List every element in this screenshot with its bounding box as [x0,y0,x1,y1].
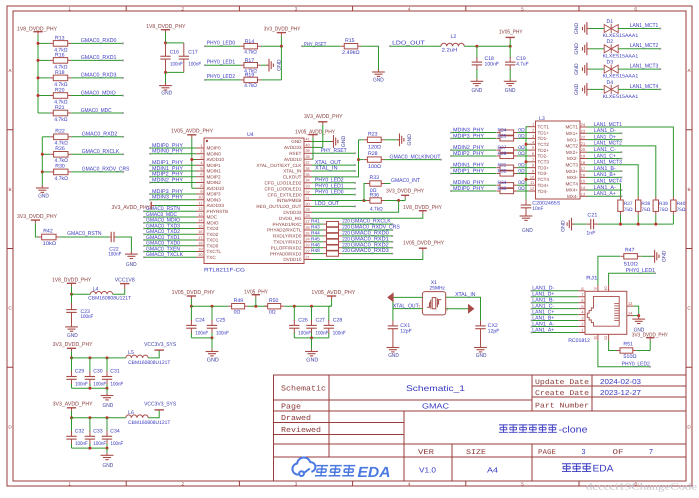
svg-text:7: 7 [532,157,534,162]
svg-text:35: 35 [305,172,309,177]
junction [190,305,193,308]
svg-text:C24: C24 [195,318,204,324]
svg-text:L6: L6 [128,410,134,416]
pin 18 (TXD0) of U4 [196,245,204,247]
wire [248,305,268,307]
wire [191,337,212,339]
svg-text:LAN1_D+: LAN1_D+ [594,134,616,140]
resistor R28 [359,159,364,161]
wire (pin2 stub) [446,308,468,310]
wire [113,289,125,295]
wire [589,88,604,90]
wire [148,350,159,358]
wire [72,357,126,359]
wire [451,190,496,192]
svg-text:22: 22 [581,135,585,140]
svg-text:3V3_AVDD_PHY: 3V3_AVDD_PHY [304,114,343,120]
svg-text:GMAC0_MDIO: GMAC0_MDIO [81,90,117,96]
svg-text:KLXES15AAA1: KLXES15AAA1 [603,33,639,39]
wire [517,155,529,157]
wire [385,159,441,161]
resistor R16 [50,59,53,61]
wire (pin 21 DVDD10) [312,251,423,259]
wire [587,195,622,197]
junction [88,387,91,390]
wire [526,161,529,163]
junction [70,293,73,296]
svg-text:R46: R46 [311,242,320,248]
svg-text:MDIP1: MDIP1 [207,163,221,168]
pin 27 (PHYAD1/RXC) of U4 [304,223,312,225]
resistor R40 [672,197,674,200]
resistor R26 [50,153,53,155]
svg-text:2: 2 [581,322,583,327]
svg-text:19: 19 [198,246,202,251]
ground [101,393,114,400]
svg-text:100nF: 100nF [333,330,346,336]
capacitor C22 [109,236,111,238]
svg-text:4.7kΩ: 4.7kΩ [55,176,69,182]
svg-text:10kΩ: 10kΩ [43,241,57,247]
svg-text:OF: OF [613,449,624,457]
wire [618,88,660,90]
ground (C26-C28) [305,349,318,356]
svg-text:3: 3 [582,447,586,456]
pin 29 (DVDD33) of U4 [304,211,312,213]
svg-text:MDIP0_PHY: MDIP0_PHY [453,186,484,192]
wire [587,139,622,141]
resistor R49 [228,305,231,307]
node PHY0_LED2 (pin 34) [312,182,355,184]
junction [88,416,91,419]
svg-text:19: 19 [581,154,585,159]
svg-text:5: 5 [581,304,583,309]
pin 18 (MCT3) of L3 [580,164,587,166]
pin 14 (MDIO) of U4 [196,222,204,224]
junction [211,336,214,339]
svg-text:R27: R27 [498,145,507,151]
capacitor 10nF (TCT) [525,199,527,205]
svg-text:C27: C27 [316,318,325,324]
svg-text:Schematic_1: Schematic_1 [406,384,466,393]
inductor L5 [126,355,148,358]
svg-text:3: 3 [581,316,583,321]
svg-text:GMAC0_TXCLK: GMAC0_TXCLK [146,252,183,258]
ground (sideways, D2) [583,42,590,55]
wire [589,48,604,50]
svg-text:C28: C28 [333,318,342,324]
svg-text:12: 12 [530,186,534,191]
pin 22 (PHYAD0/RXD3) of U4 [304,253,312,255]
resistor R48 [323,253,326,255]
wire [205,64,241,66]
svg-text:-clone: -clone [559,424,588,435]
TVS diode D3 [604,65,618,74]
svg-text:LAN1_A+: LAN1_A+ [532,327,554,333]
svg-text:RC01812: RC01812 [568,338,590,344]
svg-text:3V3_DVDD_PHY: 3V3_DVDD_PHY [386,188,424,194]
svg-text:15: 15 [198,223,202,228]
wire [42,153,50,155]
resistor R39 [655,197,657,200]
wire [150,164,196,166]
wire [72,417,126,419]
svg-text:DVDD33: DVDD33 [283,210,302,215]
svg-text:27: 27 [305,219,309,224]
pin 4 (MDIP1) of U4 [196,164,204,166]
port arrow (XTAL_IN) [468,304,474,314]
pin 2 of RJ1 [578,326,585,328]
svg-text:PHY_RSET: PHY_RSET [321,148,348,154]
wire [532,326,579,328]
wire [144,222,196,224]
resistor R22 [50,136,53,138]
wire [41,172,43,186]
resistor R13 [50,42,53,44]
resistor R50 [264,305,267,307]
wire [587,189,622,191]
svg-text:25MHz: 25MHz [430,285,446,291]
svg-text:R43: R43 [311,225,320,231]
svg-text:R49: R49 [234,298,244,304]
ground (C24/C25) [206,349,219,356]
svg-text:PHYAD2/RXCTL: PHYAD2/RXCTL [267,228,302,233]
svg-text:510Ω: 510Ω [624,262,638,268]
pin 6 of RJ1 [578,302,585,304]
wire [38,77,50,79]
pin 6 (MDIP2) of U4 [196,176,204,178]
svg-text:100nF: 100nF [111,381,124,387]
svg-text:GND: GND [574,63,580,75]
svg-text:GMAC0_MDC: GMAC0_MDC [81,108,112,114]
svg-text:XTAL_IN: XTAL_IN [315,166,338,172]
svg-text:R15: R15 [345,38,355,44]
pin 34 (CFG_LDO1/LED2) of U4 [304,182,312,184]
svg-text:TCT3: TCT3 [538,160,550,165]
svg-text:1nF: 1nF [586,231,595,237]
svg-text:PHYAD1/RXC: PHYAD1/RXC [272,222,302,227]
wire [532,296,579,298]
svg-text:MX4-: MX4- [567,194,578,199]
svg-text:25: 25 [305,231,309,236]
svg-text:AVDD33: AVDD33 [284,145,302,150]
resistor R27 [497,149,500,151]
svg-text:R16: R16 [55,52,65,58]
wire [598,341,650,367]
wire [72,293,91,295]
wire [451,137,496,139]
pin 15 (MCT4) of L3 [580,183,587,185]
svg-text:4.7kΩ: 4.7kΩ [244,83,257,89]
svg-text:1: 1 [581,328,583,333]
svg-text:4.7uF: 4.7uF [516,61,528,67]
svg-text:GMAC0_MCLKINOUT: GMAC0_MCLKINOUT [390,154,442,160]
svg-text:R48: R48 [311,248,320,254]
svg-text:PLLOFF/RXD2: PLLOFF/RXD2 [271,245,302,250]
pin 17 (MX3+) of L3 [580,170,587,172]
svg-text:GND: GND [522,228,533,234]
wire [38,112,50,114]
svg-text:0Ω: 0Ω [518,151,525,157]
svg-text:XTAL_IN: XTAL_IN [455,292,475,298]
capacitor C29 [71,358,73,372]
node PHY_RSET (pin 39) [312,152,355,154]
pin 11 of RJ1 [597,334,599,340]
svg-text:TXD2: TXD2 [207,232,219,237]
junction [475,45,478,48]
pin 39 (RSET) of U4 [304,152,312,154]
resistor R23 [359,139,364,141]
resistor R25 [497,137,500,139]
svg-text:MDIP2_PHY: MDIP2_PHY [453,151,484,157]
svg-text:28: 28 [305,213,309,218]
pin 5 (TD2+) of L3 [529,149,536,151]
svg-text:GND: GND [574,43,580,55]
svg-text:GND: GND [407,134,413,146]
pin 4 (TCT2) of L3 [529,143,536,145]
ground (13/14) [632,316,645,324]
wire [211,338,213,349]
svg-text:MDIN0_PHY: MDIN0_PHY [152,149,183,155]
junction [37,59,40,62]
pin 21 (MCT2) of L3 [580,145,587,147]
svg-text:Schematic: Schematic [281,384,326,393]
svg-text:INTB/PMEB: INTB/PMEB [277,198,302,203]
svg-text:GMAC0_RSTN: GMAC0_RSTN [67,231,101,237]
svg-text:RSET: RSET [289,151,301,156]
svg-text:4.7kΩ: 4.7kΩ [244,49,257,55]
wire [451,167,496,169]
svg-text:GND: GND [574,83,580,95]
svg-text:7: 7 [649,447,653,456]
svg-text:PHY0_LED0: PHY0_LED0 [207,40,236,46]
svg-text:R14: R14 [245,39,255,45]
junction [525,143,528,146]
svg-text:MDIN1: MDIN1 [207,169,222,174]
svg-text:100nF: 100nF [108,251,121,257]
pin 8 (AVDD10) of U4 [196,187,204,189]
svg-text:18: 18 [581,160,585,165]
svg-text:3V3_DVDD_PHY: 3V3_DVDD_PHY [264,27,301,33]
svg-text:LAN1_MCT3: LAN1_MCT3 [630,64,659,70]
svg-text:VCC3V3_SYS: VCC3V3_SYS [144,402,176,408]
svg-text:D4: D4 [607,80,614,86]
svg-text:100nF: 100nF [298,330,311,336]
pin 16 (TXD2) of U4 [196,233,204,235]
svg-text:MX3-: MX3- [567,175,578,180]
wire [312,229,323,231]
svg-text:TXD0: TXD0 [207,243,219,248]
junction [70,416,73,419]
svg-text:VCC1V8: VCC1V8 [115,277,135,283]
svg-text:R21: R21 [55,105,65,111]
svg-text:Drawed: Drawed [281,414,311,423]
wire [35,230,38,237]
TVS diode D4 [604,85,618,94]
wire [205,45,241,47]
ground (pin 41) [312,141,331,143]
svg-text:CLKOUT: CLKOUT [283,175,302,180]
svg-text:C16: C16 [170,50,179,56]
crystal X1 25MHz [422,292,445,315]
junction [88,447,91,450]
svg-text:MDC: MDC [207,215,218,220]
pin 6 (TD2-) of L3 [529,155,536,157]
pin 17 (TXD1) of U4 [196,239,204,241]
TVS diode D2 [604,44,618,53]
capacitor C34 [106,418,108,432]
transformer L3 [536,121,581,199]
svg-text:1: 1 [532,122,534,127]
svg-text:R37: R37 [624,201,633,207]
wire [618,68,660,70]
junction [310,336,313,339]
svg-text:29: 29 [305,207,309,212]
svg-text:13: 13 [628,301,632,306]
svg-text:R39: R39 [659,201,668,207]
wire [71,153,123,155]
junction [37,94,40,97]
wire [637,215,639,225]
node PHY0_LED1 (pin 33) [312,188,355,190]
wire [302,45,341,47]
pin 1 (TCT1) of L3 [529,126,536,128]
svg-text:33: 33 [305,184,309,189]
capacitor CX2 [480,321,482,326]
svg-text:dcccci19ChangeCode: dcccci19ChangeCode [586,483,697,493]
wire [144,245,196,247]
svg-text:D2: D2 [607,39,614,45]
svg-text:D3: D3 [607,60,614,66]
wire [294,337,329,339]
svg-text:100nF: 100nF [75,441,88,447]
svg-text:DVDD_RG: DVDD_RG [279,216,302,221]
svg-text:LAN1_MCT2: LAN1_MCT2 [594,141,622,147]
pin 15 (TXD3) of U4 [196,228,204,230]
pin 5 of RJ1 [578,308,585,310]
svg-text:LAN1_MCT1: LAN1_MCT1 [630,23,659,29]
svg-text:2.2uH: 2.2uH [442,47,458,53]
ground (C23) [65,325,78,332]
wire [150,176,196,178]
wire [517,137,529,139]
svg-text:16: 16 [198,229,202,234]
ground [520,214,533,221]
svg-text:1: 1 [68,6,71,11]
junction [280,45,283,48]
wire [390,45,441,47]
ground [125,252,138,259]
svg-text:100nF: 100nF [81,314,94,320]
svg-text:R32: R32 [498,168,507,174]
svg-text:LAN1_C+: LAN1_C+ [594,153,616,159]
svg-text:GND: GND [103,403,114,409]
svg-text:B: B [687,187,690,192]
svg-text:GND: GND [505,88,516,94]
svg-text:0Ω: 0Ω [234,310,241,316]
svg-text:XTAL_OUT/EXT_CLK: XTAL_OUT/EXT_CLK [256,163,302,168]
pin 3 of RJ1 [578,320,585,322]
svg-text:DVDD10: DVDD10 [283,257,302,262]
svg-text:L3: L3 [539,116,545,122]
junction [106,387,109,390]
svg-text:2: 2 [532,128,534,133]
svg-text:R31: R31 [498,163,507,169]
svg-text:32: 32 [305,190,309,195]
svg-text:16: 16 [581,172,585,177]
wire [71,95,123,97]
svg-text:38: 38 [305,154,309,159]
svg-text:36: 36 [305,166,309,171]
wire [655,215,657,225]
svg-text:R26: R26 [55,146,65,152]
svg-text:PHY0_LED0: PHY0_LED0 [315,189,344,195]
svg-text:12pF: 12pF [488,328,500,334]
pin 12 (PHYRSTB) of U4 [196,210,204,212]
svg-text:PHYRSTB: PHYRSTB [207,209,229,214]
pin 9 (MDIP3) of U4 [196,193,204,195]
svg-text:9: 9 [200,189,202,194]
ground (CX1) [387,345,400,352]
junction [106,416,109,419]
svg-text:15: 15 [581,179,585,184]
wire [311,338,313,349]
svg-text:100nF: 100nF [93,381,106,387]
resistor R17 [241,64,244,66]
svg-text:4.7kΩ: 4.7kΩ [370,206,383,212]
svg-text:AVDD10: AVDD10 [207,186,225,191]
pin 13 (MDC) of U4 [196,216,204,218]
svg-text:KLXES15AAA1: KLXES15AAA1 [603,94,639,100]
svg-text:LAN1_C-: LAN1_C- [594,147,616,153]
svg-text:11: 11 [199,200,203,205]
svg-text:2: 2 [182,6,185,11]
pin 7 (MDIN2) of U4 [196,182,204,184]
pin 30 (REG_OUT/LDO_OUT) of U4 [304,205,312,207]
svg-text:GND: GND [341,135,347,147]
junction [106,447,109,450]
wire [38,95,50,97]
svg-text:TXCTL: TXCTL [207,249,222,254]
svg-text:LAN1_D-: LAN1_D- [594,128,616,134]
svg-text:MX2-: MX2- [567,156,578,161]
wire [71,112,123,114]
capacitor C19 [509,46,511,58]
junction [293,305,296,308]
wire [589,68,604,70]
ground (sideways, D4) [583,83,590,96]
svg-text:AVDD33: AVDD33 [207,203,225,208]
svg-text:GMAC0_RXD0: GMAC0_RXD0 [81,38,117,44]
pin 22 (MX1-) of L3 [580,139,587,141]
wire [589,28,604,30]
svg-text:PHY0_LED2: PHY0_LED2 [207,74,236,80]
pin 14 of RJ1 [627,315,634,317]
wire [526,143,529,145]
pin 23 (MX1+) of L3 [580,132,587,134]
junction [70,356,73,359]
wire [144,210,196,212]
svg-text:R40: R40 [677,201,686,207]
wire [42,171,50,173]
svg-text:R38: R38 [641,201,650,207]
svg-text:13: 13 [198,212,202,217]
svg-text:GMAC0_RXD3: GMAC0_RXD3 [81,73,117,79]
svg-text:100nF: 100nF [93,441,106,447]
wire [526,178,529,180]
svg-text:R25: R25 [498,133,507,139]
wire [517,149,529,151]
